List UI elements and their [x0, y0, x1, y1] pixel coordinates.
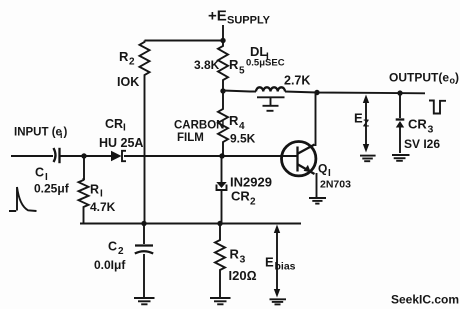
svg-text:9.5K: 9.5K	[230, 132, 256, 146]
svg-text:C: C	[108, 240, 117, 254]
svg-text:FILM: FILM	[177, 132, 204, 144]
svg-text:2: 2	[118, 246, 124, 257]
svg-text:IOK: IOK	[117, 75, 139, 89]
svg-text:4.7K: 4.7K	[90, 200, 116, 214]
inductor DL1	[256, 87, 285, 91]
transistor Q1	[282, 142, 316, 176]
label R3	[230, 247, 246, 266]
svg-text:I: I	[100, 189, 103, 200]
svg-text:I: I	[123, 123, 126, 134]
svg-text:2: 2	[129, 57, 135, 68]
svg-text:E: E	[354, 111, 363, 126]
resistor R1	[79, 156, 89, 224]
wire bottom bias rail	[80, 223, 301, 225]
label DL1	[250, 44, 269, 63]
svg-text:CR: CR	[105, 117, 123, 131]
label INPUT (ei)	[14, 127, 68, 141]
svg-text:R: R	[230, 247, 240, 262]
label Ebias	[265, 255, 296, 273]
svg-text:Q: Q	[318, 162, 327, 176]
ground EZ	[360, 156, 376, 162]
node supply junction	[220, 38, 225, 43]
svg-text:SV I26: SV I26	[404, 137, 440, 151]
ground CR3	[392, 155, 410, 161]
label Q1	[318, 162, 331, 180]
svg-text:CR: CR	[408, 117, 427, 132]
wire collector	[315, 93, 317, 147]
resistor R2	[140, 41, 150, 224]
label CR3	[408, 117, 434, 136]
node C2 junction	[141, 221, 146, 226]
wire +E supply stub	[222, 25, 224, 41]
label C2	[108, 240, 124, 258]
wire CR1 to base	[124, 155, 297, 157]
node input junction	[81, 153, 86, 158]
wire delay line top	[223, 91, 256, 92]
svg-text:INPUT (e: INPUT (e	[14, 127, 62, 139]
label EZ	[354, 111, 369, 130]
svg-text:I20Ω: I20Ω	[229, 268, 257, 283]
resistor R3	[215, 224, 225, 298]
svg-text:i: i	[60, 130, 63, 140]
ground delay line shield	[257, 97, 285, 111]
svg-text:3.8K: 3.8K	[194, 58, 220, 72]
svg-text:0.25μf: 0.25μf	[34, 182, 70, 196]
arrow EZ	[363, 95, 369, 153]
node R3 junction	[217, 221, 222, 226]
resistor R5	[218, 41, 228, 92]
label CR1	[105, 117, 126, 134]
svg-text:CR: CR	[231, 189, 250, 204]
svg-text:2: 2	[250, 197, 256, 208]
ground C2	[134, 298, 155, 304]
svg-text:): )	[64, 127, 68, 139]
node R5/R4 junction	[220, 88, 225, 93]
diode CR1	[111, 151, 126, 161]
svg-text:5: 5	[239, 66, 245, 77]
svg-text:IN2929: IN2929	[230, 175, 272, 190]
svg-text:0.5μSEC: 0.5μSEC	[246, 58, 285, 69]
svg-text:OUTPUT(e: OUTPUT(e	[389, 71, 449, 85]
label +E SUPPLY	[208, 8, 271, 27]
capacitor C2	[135, 224, 153, 298]
svg-text:R: R	[229, 113, 239, 128]
wire input left	[11, 155, 53, 157]
node output CR3 junction	[397, 90, 402, 95]
label C1	[35, 166, 48, 184]
svg-text:R: R	[119, 49, 129, 64]
capacitor C1	[54, 148, 60, 163]
svg-text:0.0Iμf: 0.0Iμf	[94, 258, 126, 272]
svg-text:): )	[455, 71, 459, 85]
label OUTPUT (eo)	[389, 71, 459, 86]
node collector junction	[314, 90, 319, 95]
svg-text:SUPPLY: SUPPLY	[227, 15, 271, 27]
diode CR2	[216, 156, 226, 224]
output pulse waveform icon	[429, 101, 446, 114]
svg-text:2N703: 2N703	[320, 179, 351, 191]
svg-text:R: R	[90, 183, 99, 197]
label R4	[229, 113, 245, 132]
svg-text:HU 25A: HU 25A	[99, 136, 143, 150]
svg-text:2.7K: 2.7K	[284, 74, 310, 88]
ground R3	[210, 298, 231, 304]
arrow Ebias	[274, 225, 280, 298]
wire C1 to CR1	[61, 155, 112, 157]
resistor R4	[218, 91, 228, 156]
svg-text:I: I	[328, 168, 331, 179]
svg-text:3: 3	[240, 254, 246, 266]
svg-text:+E: +E	[208, 8, 227, 25]
svg-text:SeekIC.com: SeekIC.com	[391, 293, 459, 307]
svg-text:C: C	[35, 166, 44, 180]
label CR2	[231, 189, 256, 208]
node base junction	[219, 153, 224, 158]
wire emitter	[316, 173, 318, 198]
ground Ebias	[270, 299, 287, 304]
diode CR3	[396, 93, 405, 153]
input pulse waveform icon	[9, 187, 37, 211]
label R1	[90, 183, 103, 200]
svg-text:Z: Z	[363, 119, 369, 130]
ground emitter	[309, 198, 326, 204]
svg-text:bias: bias	[275, 261, 296, 273]
label R5	[229, 57, 245, 77]
label CARBON FILM	[174, 120, 224, 145]
svg-text:4: 4	[239, 121, 245, 132]
svg-text:E: E	[265, 255, 274, 270]
label R2	[119, 49, 135, 68]
svg-text:R: R	[229, 57, 239, 72]
svg-text:CARBON: CARBON	[174, 120, 224, 132]
wire top rail	[145, 40, 224, 42]
wire inductor to output	[285, 92, 425, 94]
svg-text:3: 3	[428, 124, 434, 136]
